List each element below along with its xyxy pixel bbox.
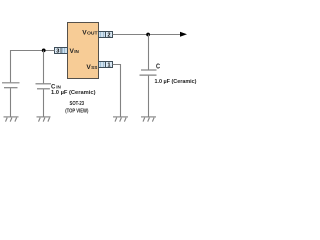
svg-text:1.0 µF (Ceramic): 1.0 µF (Ceramic) bbox=[155, 79, 197, 85]
wire output cap vertical bbox=[148, 35, 150, 71]
svg-text:3: 3 bbox=[56, 49, 59, 55]
op-amp U1 (LDO regulator body, SOT-23) bbox=[68, 23, 99, 79]
pin 2 (VOUT pin of U1) bbox=[99, 32, 113, 39]
capacitor C IN bbox=[36, 84, 52, 89]
wire VOUT horizontal (output net) bbox=[113, 34, 182, 36]
svg-text:C: C bbox=[156, 62, 160, 71]
svg-text:(TOP VIEW): (TOP VIEW) bbox=[65, 109, 88, 115]
pin 3 (VIN pin of U1) bbox=[55, 48, 68, 55]
ground (below output cap C) bbox=[141, 117, 156, 122]
wire left cap to ground bbox=[10, 88, 12, 117]
node output junction bbox=[146, 33, 150, 37]
svg-text:OUT: OUT bbox=[87, 31, 98, 37]
wire output cap to ground bbox=[148, 76, 150, 117]
ground (below input supply cap) bbox=[4, 117, 19, 122]
wire CIN to ground bbox=[43, 89, 45, 117]
pin 1 (VSS pin of U1) bbox=[99, 62, 113, 69]
label VSS (pin name inside U1) bbox=[86, 64, 98, 71]
node input junction bbox=[42, 49, 46, 53]
label C IN bbox=[51, 83, 61, 90]
ground (below C IN) bbox=[37, 117, 51, 122]
wire input horizontal (VIN net) bbox=[10, 50, 55, 52]
capacitor C (output) bbox=[140, 70, 157, 75]
svg-text:IN: IN bbox=[74, 49, 79, 55]
svg-text:1: 1 bbox=[107, 63, 110, 69]
label VIN (pin name inside U1) bbox=[70, 48, 80, 55]
svg-text:1.0 µF (Ceramic): 1.0 µF (Ceramic) bbox=[51, 90, 96, 96]
svg-text:SS: SS bbox=[91, 65, 98, 71]
svg-text:2: 2 bbox=[107, 33, 110, 39]
arrow output bbox=[180, 32, 187, 37]
wire CIN vertical drop bbox=[43, 51, 45, 84]
wire input left vertical drop bbox=[10, 50, 12, 82]
svg-text:SOT-23: SOT-23 bbox=[70, 101, 85, 107]
label VOUT (pin name inside U1) bbox=[82, 29, 97, 36]
ground (below VSS pin wire) bbox=[113, 117, 128, 122]
wire VSS pin to ground corner bbox=[113, 65, 121, 117]
capacitor (input supply cap, unlabeled) bbox=[2, 83, 20, 88]
